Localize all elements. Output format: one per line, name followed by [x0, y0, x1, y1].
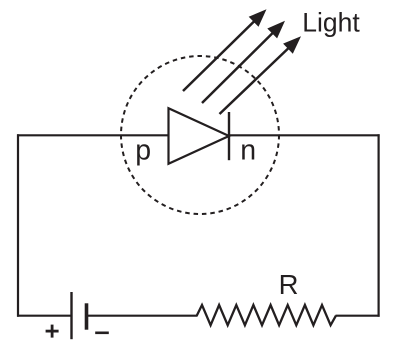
wire battery to resistor	[87, 315, 198, 317]
dashed circle (LED envelope)	[121, 56, 279, 214]
wire top-right segment	[229, 134, 380, 136]
light arrow 1	[183, 9, 267, 91]
LED diode triangle (anode)	[169, 108, 230, 164]
light arrow 2	[202, 21, 285, 103]
wire top-left segment	[17, 134, 169, 136]
LED cathode bar	[228, 112, 230, 160]
wire left vertical	[17, 134, 19, 317]
svg-text:R: R	[279, 269, 299, 300]
wire right vertical	[378, 134, 380, 317]
battery + label	[46, 325, 59, 338]
svg-text:Light: Light	[302, 7, 360, 37]
light arrow 3	[220, 36, 302, 114]
battery negative plate (short thick)	[85, 303, 89, 329]
svg-text:n: n	[240, 134, 256, 166]
resistor R zigzag	[197, 305, 336, 325]
wire resistor to bottom-right corner	[336, 315, 380, 317]
svg-text:p: p	[135, 134, 151, 166]
wire bottom-left to battery	[17, 315, 72, 317]
battery positive plate (long)	[70, 292, 72, 339]
battery - label	[95, 331, 109, 334]
